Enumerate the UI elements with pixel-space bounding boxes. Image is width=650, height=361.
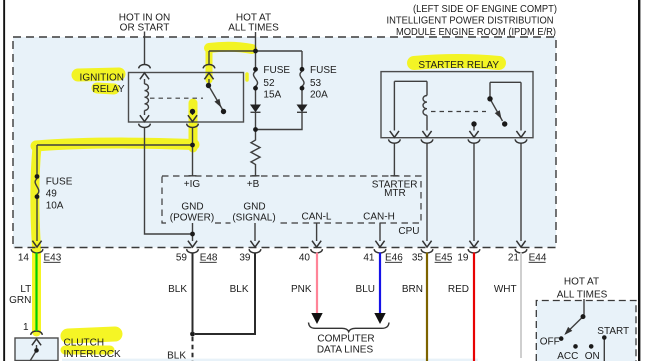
- svg-text:ON: ON: [585, 351, 600, 361]
- svg-text:RED: RED: [448, 284, 469, 295]
- svg-text:CAN-L: CAN-L: [301, 212, 331, 223]
- svg-text:IGNITION: IGNITION: [80, 72, 124, 83]
- svg-text:CPU: CPU: [398, 226, 419, 237]
- svg-text:INTERLOCK: INTERLOCK: [64, 349, 122, 360]
- svg-text:(POWER): (POWER): [170, 213, 214, 224]
- svg-text:20A: 20A: [310, 89, 328, 100]
- svg-text:39: 39: [239, 253, 251, 264]
- svg-text:RELAY: RELAY: [93, 84, 125, 95]
- svg-text:10A: 10A: [46, 200, 64, 211]
- svg-text:DATA LINES: DATA LINES: [317, 344, 374, 355]
- svg-text:14: 14: [18, 253, 30, 264]
- svg-text:HOT AT: HOT AT: [564, 276, 599, 287]
- svg-text:BLK: BLK: [168, 284, 187, 295]
- svg-text:BRN: BRN: [402, 284, 423, 295]
- svg-text:ALL TIMES: ALL TIMES: [228, 22, 279, 33]
- svg-text:BLK: BLK: [230, 284, 249, 295]
- svg-text:52: 52: [263, 78, 275, 89]
- svg-text:GRN: GRN: [9, 295, 31, 306]
- svg-text:FUSE: FUSE: [263, 65, 290, 76]
- svg-text:41: 41: [363, 253, 375, 264]
- svg-text:GND: GND: [243, 201, 265, 212]
- svg-text:GND: GND: [181, 201, 203, 212]
- svg-text:1: 1: [23, 322, 29, 333]
- svg-text:19: 19: [457, 253, 469, 264]
- svg-text:MODULE ENGINE ROOM (IPDM E/R): MODULE ENGINE ROOM (IPDM E/R): [396, 26, 556, 38]
- svg-text:MTR: MTR: [384, 188, 406, 199]
- svg-text:40: 40: [299, 253, 311, 264]
- svg-text:21: 21: [508, 253, 520, 264]
- svg-text:15A: 15A: [263, 89, 281, 100]
- svg-text:(LEFT SIDE OF ENGINE COMPT): (LEFT SIDE OF ENGINE COMPT): [413, 3, 557, 15]
- svg-text:BLU: BLU: [356, 284, 375, 295]
- svg-text:FUSE: FUSE: [310, 65, 337, 76]
- svg-text:ALL TIMES: ALL TIMES: [557, 290, 608, 301]
- svg-text:INTELLIGENT POWER DISTRIBUTION: INTELLIGENT POWER DISTRIBUTION: [387, 15, 554, 27]
- svg-text:CLUTCH: CLUTCH: [64, 337, 105, 348]
- svg-text:BLK: BLK: [167, 350, 186, 361]
- svg-text:ACC: ACC: [557, 351, 578, 361]
- svg-text:OR START: OR START: [120, 22, 170, 33]
- svg-text:59: 59: [176, 253, 188, 264]
- svg-text:START: START: [597, 326, 629, 337]
- svg-text:35: 35: [412, 253, 424, 264]
- svg-text:PNK: PNK: [291, 284, 312, 295]
- svg-text:(SIGNAL): (SIGNAL): [232, 213, 275, 224]
- svg-text:+IG: +IG: [184, 179, 201, 190]
- svg-text:FUSE: FUSE: [46, 177, 73, 188]
- svg-text:LT: LT: [20, 284, 31, 295]
- svg-text:49: 49: [46, 189, 58, 200]
- svg-text:53: 53: [310, 78, 322, 89]
- svg-text:WHT: WHT: [494, 284, 517, 295]
- svg-text:CAN-H: CAN-H: [363, 212, 395, 223]
- svg-text:OFF: OFF: [540, 336, 560, 347]
- svg-text:STARTER RELAY: STARTER RELAY: [418, 60, 499, 71]
- svg-text:COMPUTER: COMPUTER: [317, 334, 374, 345]
- svg-text:+B: +B: [247, 179, 260, 190]
